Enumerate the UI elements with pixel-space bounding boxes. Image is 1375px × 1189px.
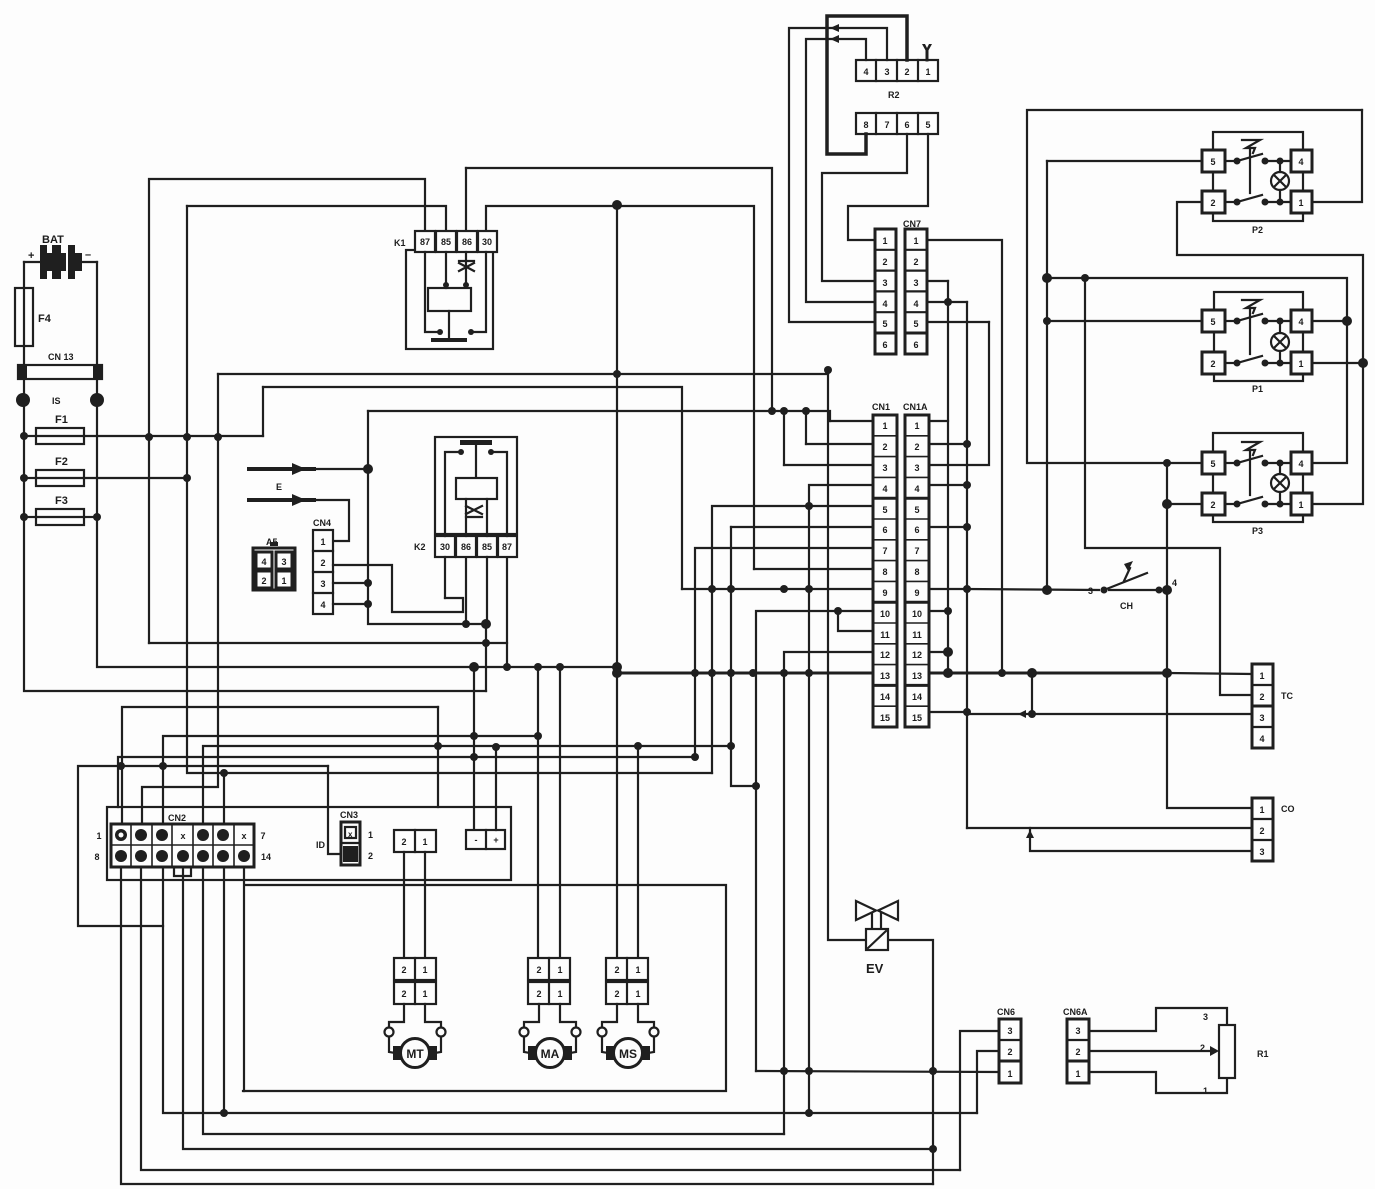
wire CN1A-13 [929, 672, 948, 674]
P2 internals [1225, 160, 1237, 162]
svg-text:K1: K1 [394, 238, 406, 248]
wire CN3 riser from bracket bus [328, 766, 341, 854]
motor compartment box [243, 885, 726, 1091]
connector CN1 [872, 402, 897, 727]
K2 diode symbol [465, 499, 467, 536]
svg-text:2: 2 [1075, 1047, 1080, 1057]
wire vertical A from y110 line down to P3-5 [1027, 110, 1362, 463]
svg-text:-: - [475, 835, 478, 845]
svg-text:10: 10 [912, 609, 922, 619]
svg-text:2: 2 [1259, 692, 1264, 702]
junction dots [612, 502, 842, 1117]
wire R2-5 to CN7-1 [848, 134, 928, 240]
wire CN1-6 net down to CN6-1 line [731, 527, 756, 786]
wire CN1-2 riser [805, 411, 807, 444]
svg-text:3: 3 [1088, 586, 1093, 596]
wire MA riser right [559, 667, 561, 958]
junction dots [469, 619, 491, 761]
svg-text:1: 1 [368, 830, 373, 840]
wire minus rail vertical [473, 667, 475, 830]
svg-text:P3: P3 [1252, 526, 1263, 536]
junction dots K1 top area [145, 200, 622, 441]
wire K2-86 descender [465, 557, 467, 624]
wire CN2 cell9 bus to CN6-3 [141, 867, 960, 1170]
wire y773 bus from F1 s186 to CN1-5 [187, 206, 712, 773]
svg-text:14: 14 [912, 692, 922, 702]
svg-text:1: 1 [557, 989, 562, 999]
wire s1167 vertical [1167, 463, 1252, 808]
wire s967 vertical [966, 302, 968, 828]
wire y278 feed line to P1-4 / P3-4 [1047, 278, 1347, 463]
wire CN2 cell10 bus to CN6-2 [163, 867, 977, 1113]
svg-text:3: 3 [1203, 1012, 1208, 1022]
svg-text:12: 12 [912, 650, 922, 660]
wire top main bus y370 [218, 373, 828, 375]
svg-text:3: 3 [1259, 847, 1264, 857]
wire s1032 tie [1031, 673, 1033, 714]
junction dots [534, 663, 564, 671]
svg-text:2: 2 [904, 67, 909, 77]
wire P1-1 stub [1313, 362, 1363, 364]
wire R2-2 to R2-8 thick loop [827, 16, 907, 154]
svg-text:14: 14 [880, 692, 890, 702]
svg-text:6: 6 [914, 525, 919, 535]
svg-text:2: 2 [913, 257, 918, 267]
motor MS [598, 1004, 659, 1068]
wire TC-1 from bus [1168, 673, 1252, 674]
wire CN2-15(cell13) to CN6-2 [223, 867, 225, 1113]
svg-text:TC: TC [1281, 691, 1293, 701]
wire EV right to bottom bus [889, 940, 933, 1184]
wire R2-6 to CN7-3 [822, 134, 907, 281]
wire CO-3 branch [1030, 828, 1252, 851]
svg-text:86: 86 [462, 237, 472, 247]
wire CO-2 [967, 827, 1252, 829]
svg-text:1: 1 [1259, 805, 1264, 815]
connector MT top 2/1 [394, 830, 436, 852]
svg-text:4: 4 [863, 67, 868, 77]
wire CN2 cell11 bus to EV net [183, 867, 933, 1149]
motor MA [520, 1004, 581, 1068]
svg-text:87: 87 [502, 542, 512, 552]
svg-text:4: 4 [913, 299, 918, 309]
svg-text:1: 1 [1203, 1086, 1208, 1096]
svg-text:CN2: CN2 [168, 813, 186, 823]
connector CN2 [94, 813, 271, 876]
svg-text:CO: CO [1281, 804, 1295, 814]
wire CN1-6 [731, 526, 873, 528]
wire CN1-12 [784, 652, 873, 1134]
svg-text:3: 3 [882, 463, 887, 473]
wire y643 bus from K1-87 net to K2 coil [149, 642, 507, 644]
svg-text:2: 2 [401, 989, 406, 999]
svg-text:CN3: CN3 [340, 810, 358, 820]
svg-text:3: 3 [281, 557, 286, 567]
wire EV riser from top bus [828, 374, 866, 940]
sensor E [249, 469, 314, 500]
svg-text:1: 1 [882, 236, 887, 246]
wire CN1A-6 [929, 526, 967, 528]
wire CN6-3 jog [960, 1031, 999, 1170]
connector CN13 [18, 352, 102, 379]
fuse F2 [36, 456, 84, 486]
switch IS [16, 393, 104, 407]
valve EV [856, 901, 898, 976]
wire CN1A-4 [929, 484, 967, 486]
connector CN1A [903, 402, 929, 727]
svg-text:2: 2 [1210, 198, 1215, 208]
svg-text:7: 7 [884, 120, 889, 130]
svg-text:1: 1 [320, 537, 325, 547]
wire P1-5 feed [1047, 320, 1202, 322]
wire K1-86 riser to top bus T1 [465, 168, 467, 231]
svg-text:3: 3 [1075, 1026, 1080, 1036]
wire K1-30 riser and y205 bus to right [486, 206, 754, 569]
svg-text:10: 10 [880, 609, 890, 619]
connector R2 bottom row [856, 113, 938, 134]
svg-text:F3: F3 [55, 495, 68, 507]
wire CN7A-4 [927, 301, 967, 303]
wire TC-2 long path [1085, 278, 1252, 695]
wire CN1A-10 [929, 610, 948, 612]
wire CN1-1 [830, 420, 873, 422]
svg-text:11: 11 [912, 630, 922, 640]
wire CN4-3 stub [333, 582, 368, 584]
svg-text:MA: MA [541, 1047, 560, 1061]
svg-text:EV: EV [866, 961, 884, 976]
svg-text:1: 1 [914, 421, 919, 431]
svg-text:2: 2 [1007, 1047, 1012, 1057]
wire s948 vertical [947, 281, 949, 673]
svg-text:5: 5 [882, 505, 887, 515]
wire CN1-9 [682, 588, 873, 590]
wire CN1-10 [756, 611, 873, 1071]
svg-text:7: 7 [882, 546, 887, 556]
wire y746 bus (CN2 cell5 riser to CN1-6) [203, 746, 731, 825]
wire s369 vertical to E junction and CN4-4 bus [368, 411, 486, 624]
svg-text:7: 7 [914, 546, 919, 556]
wire R2-4 to CN7-4 [806, 39, 875, 302]
junction dots [117, 732, 735, 777]
svg-text:1: 1 [422, 965, 427, 975]
svg-text:14: 14 [261, 852, 271, 862]
fuse F3 [36, 495, 84, 525]
svg-text:K2: K2 [414, 542, 426, 552]
svg-text:CH: CH [1120, 601, 1133, 611]
svg-text:MS: MS [619, 1047, 637, 1061]
wire y390 bus to CN1-9 [262, 387, 264, 436]
wire top bus T1 to s772 riser down to y411 bus [466, 168, 772, 411]
svg-text:6: 6 [882, 340, 887, 350]
svg-text:5: 5 [1210, 157, 1215, 167]
svg-text:1: 1 [1298, 359, 1303, 369]
svg-text:1: 1 [1298, 500, 1303, 510]
junction dots [292, 463, 306, 506]
wire F3 to right rail [24, 516, 36, 518]
svg-text:1: 1 [1075, 1069, 1080, 1079]
svg-text:3: 3 [1007, 1026, 1012, 1036]
wire CN1A-15 [929, 711, 967, 713]
connector CN6A [1063, 1007, 1089, 1083]
svg-text:1: 1 [96, 831, 101, 841]
wire CN1-2 [806, 443, 873, 445]
svg-text:MT: MT [406, 1047, 424, 1061]
connector CN7 col1 [875, 219, 921, 354]
svg-text:2: 2 [1259, 826, 1264, 836]
svg-text:6: 6 [882, 525, 887, 535]
wire y410 bus from F2 to CN1 pins 1/2/3 risers [368, 411, 830, 421]
wire CN1A-1 [929, 420, 948, 422]
svg-text:1: 1 [281, 576, 286, 586]
svg-text:2: 2 [536, 989, 541, 999]
svg-text:3: 3 [914, 463, 919, 473]
relay K1 [394, 231, 497, 349]
svg-text:BAT: BAT [42, 234, 64, 246]
antenna [922, 44, 932, 60]
svg-text:4: 4 [261, 557, 266, 567]
battery BAT [24, 234, 97, 279]
wire s438 stub [437, 707, 439, 807]
svg-text:CN1A: CN1A [903, 402, 928, 412]
wire y736 bus (CN2 cell3 riser) [163, 736, 538, 825]
svg-text:R2: R2 [888, 90, 900, 100]
junction dots [1162, 499, 1172, 678]
svg-text:6: 6 [913, 340, 918, 350]
svg-text:1: 1 [422, 837, 427, 847]
svg-text:30: 30 [440, 542, 450, 552]
svg-text:8: 8 [882, 567, 887, 577]
svg-text:5: 5 [1210, 459, 1215, 469]
connector MS pair [606, 958, 648, 1004]
svg-text:1: 1 [635, 965, 640, 975]
svg-text:8: 8 [914, 567, 919, 577]
junction dots [1027, 668, 1037, 718]
wire CN1-11 [838, 611, 873, 631]
wire P2-2 path down right to P1-1 and P3-1 [1177, 202, 1363, 504]
svg-text:4: 4 [882, 299, 887, 309]
svg-text:5: 5 [882, 319, 887, 329]
svg-text:E: E [276, 482, 282, 492]
svg-text:4: 4 [882, 484, 887, 494]
wire MS riser right [637, 746, 639, 958]
connector CN7A col2 [905, 229, 927, 354]
K1 contact [448, 311, 450, 338]
wire K2-85 down to CN4 bus dot [486, 557, 488, 624]
wire left rail (battery + down to bottom bus) [24, 262, 486, 691]
wire CN6-1 line [756, 1071, 999, 1072]
svg-text:1: 1 [913, 236, 918, 246]
svg-text:CN 13: CN 13 [48, 352, 74, 362]
svg-text:2: 2 [1210, 500, 1215, 510]
wire s486 vertical CN4 bus down to y691 [485, 624, 487, 691]
wire CN4-2 to K2-30 jog path [333, 565, 463, 612]
wire C-bracket bus around CN2 left [78, 766, 328, 926]
svg-text:3: 3 [913, 278, 918, 288]
svg-text:2: 2 [914, 442, 919, 452]
svg-text:4: 4 [1298, 459, 1303, 469]
wire s1047 P2-5 feed [1046, 161, 1048, 590]
svg-text:4: 4 [914, 484, 919, 494]
wire plus riser [495, 747, 497, 830]
fuse F1 [36, 414, 84, 444]
wire CN1-7 [695, 548, 873, 757]
connector CN6 [997, 1007, 1021, 1083]
svg-text:CN6A: CN6A [1063, 1007, 1088, 1017]
svg-text:3: 3 [884, 67, 889, 77]
wire MA riser left from rail bus [537, 667, 539, 958]
svg-text:2: 2 [536, 965, 541, 975]
svg-text:85: 85 [441, 237, 451, 247]
wire K2-30 descender [444, 557, 446, 598]
svg-text:13: 13 [880, 671, 890, 681]
wire P1-4 stub [1313, 320, 1347, 322]
svg-text:–: – [85, 249, 91, 261]
svg-text:CN4: CN4 [313, 518, 331, 528]
wire right rail (battery - down then right) [97, 262, 617, 667]
wire CN7A-3 to s948 [927, 280, 948, 282]
svg-text:3: 3 [1259, 713, 1264, 723]
wire CN4-4 stub [333, 603, 368, 605]
svg-text:1: 1 [1298, 198, 1303, 208]
svg-text:1: 1 [925, 67, 930, 77]
control unit outline [107, 807, 511, 880]
wire CN1-13 bus thick [617, 672, 873, 675]
connector A5 [253, 537, 295, 590]
wire CN7A-5 [927, 321, 989, 323]
svg-text:15: 15 [880, 713, 890, 723]
motor MT [385, 1004, 446, 1068]
wire E upper to s369 [306, 468, 368, 470]
wire CN1A-12 [929, 651, 948, 653]
svg-text:1: 1 [882, 421, 887, 431]
wire TC-3 [967, 713, 1252, 715]
wire CN2 cell8 bus to EV bottom [121, 867, 933, 1184]
svg-text:3: 3 [882, 278, 887, 288]
wire CN1A-2 [929, 443, 967, 445]
svg-text:2: 2 [614, 965, 619, 975]
K1 coil [428, 288, 471, 311]
junction dots [929, 1067, 937, 1075]
svg-text:+: + [493, 835, 498, 845]
svg-text:4: 4 [320, 600, 325, 610]
wire mid vertical s617 down through box to motor MS [616, 205, 618, 958]
svg-text:2: 2 [882, 442, 887, 452]
svg-text:11: 11 [880, 630, 890, 640]
wire CN2 cell6 riser [223, 773, 225, 825]
wire y787 bus from s218 to CN2 cell2 [142, 374, 218, 825]
svg-text:2: 2 [368, 851, 373, 861]
wire P3-2 from CH vertical [1167, 503, 1202, 505]
svg-text:1: 1 [1259, 671, 1264, 681]
svg-text:6: 6 [904, 120, 909, 130]
svg-text:1: 1 [1007, 1069, 1012, 1079]
K2 contact bar [460, 440, 492, 445]
svg-text:R1: R1 [1257, 1049, 1269, 1059]
svg-text:CN6: CN6 [997, 1007, 1015, 1017]
svg-text:+: + [28, 250, 34, 262]
wire F2 row to riser [24, 477, 36, 479]
wire CN1-5 [712, 506, 873, 773]
svg-text:x: x [180, 831, 185, 841]
wire s1362 down to P2-1 [1313, 110, 1362, 202]
svg-text:2: 2 [261, 576, 266, 586]
connector CN4 [313, 518, 333, 614]
junction dots on left rail [20, 432, 191, 521]
svg-text:13: 13 [912, 671, 922, 681]
wire CN2-14 descender forming left edge [243, 867, 245, 1091]
wire CN2 cell1 riser jog [122, 707, 438, 825]
svg-text:8: 8 [94, 852, 99, 862]
svg-text:CN1: CN1 [872, 402, 890, 412]
svg-text:2: 2 [1210, 359, 1215, 369]
svg-text:2: 2 [320, 558, 325, 568]
svg-text:1: 1 [635, 989, 640, 999]
svg-text:2: 2 [401, 837, 406, 847]
wire CN1A-3 [929, 322, 989, 465]
svg-text:2: 2 [614, 989, 619, 999]
svg-text:86: 86 [461, 542, 471, 552]
wire F1 row [24, 435, 36, 437]
svg-text:15: 15 [912, 713, 922, 723]
svg-text:8: 8 [863, 120, 868, 130]
svg-text:F4: F4 [38, 313, 52, 325]
svg-text:7: 7 [260, 831, 265, 841]
wire CN1-3 [784, 464, 873, 466]
svg-text:IS: IS [52, 396, 61, 406]
svg-text:2: 2 [1200, 1043, 1205, 1053]
svg-text:1: 1 [557, 965, 562, 975]
connector CN3 [316, 810, 373, 865]
svg-text:12: 12 [880, 650, 890, 660]
wire CN1-4 descender long [809, 485, 873, 1113]
wire R2-3 to CN7-5 [789, 28, 887, 322]
K2 coil [456, 478, 497, 499]
svg-text:x: x [348, 830, 353, 839]
connector R2 top row [856, 60, 938, 100]
wire E lower to CN4-1 [306, 500, 349, 541]
svg-text:P2: P2 [1252, 225, 1263, 235]
svg-text:4: 4 [1172, 578, 1177, 588]
svg-text:4: 4 [1298, 157, 1303, 167]
svg-text:30: 30 [482, 237, 492, 247]
K1 diode symbol [459, 252, 474, 288]
svg-text:F2: F2 [55, 456, 68, 468]
svg-text:5: 5 [914, 505, 919, 515]
wire CN1-3 riser [783, 411, 785, 465]
svg-text:5: 5 [913, 319, 918, 329]
svg-text:87: 87 [420, 237, 430, 247]
wire CN7A-1 down long [927, 240, 1002, 673]
wires MT connector risers [403, 852, 405, 958]
connector minus plus [466, 830, 505, 849]
wire CN1A-9 [929, 588, 967, 590]
junction dots [943, 440, 1006, 716]
junction dots [363, 407, 776, 608]
wire K1-85 to F1 [187, 206, 446, 231]
svg-text:9: 9 [914, 588, 919, 598]
svg-text:2: 2 [401, 965, 406, 975]
junction dots [462, 620, 622, 672]
relay K2 [414, 437, 517, 557]
svg-text:9: 9 [882, 588, 887, 598]
wire CN2 cell12 bus to s784 [203, 867, 784, 1134]
svg-text:F1: F1 [55, 414, 68, 426]
junction dots [830, 24, 839, 43]
connector MT pair [394, 958, 436, 1004]
connector MA pair [528, 958, 570, 1004]
svg-text:3: 3 [320, 579, 325, 589]
wire y757 bus to CN1-7 [118, 757, 695, 807]
